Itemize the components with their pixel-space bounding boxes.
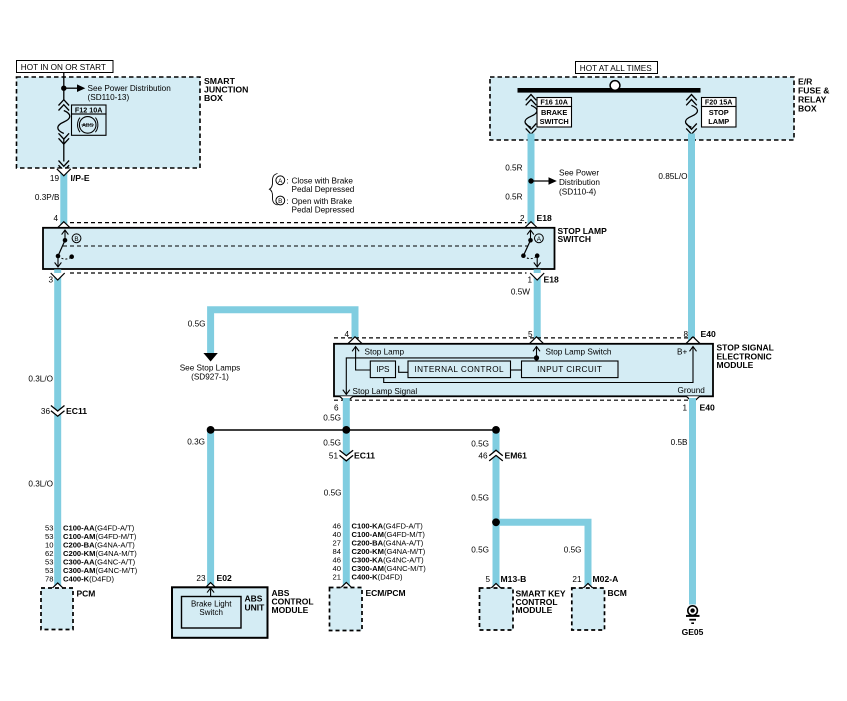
node junction branch to BCM: [492, 518, 500, 526]
svg-text:MODULE: MODULE: [272, 605, 309, 615]
svg-text:0.5G: 0.5G: [188, 320, 206, 329]
svg-text:51: 51: [329, 452, 339, 461]
svg-text:0.5W: 0.5W: [511, 288, 530, 297]
svg-text:Ground: Ground: [678, 386, 706, 395]
svg-text:BOX: BOX: [798, 104, 817, 114]
connector chevron module pin 6: [340, 396, 353, 402]
svg-text:A: A: [278, 178, 283, 185]
connector chevron M02-A: [581, 583, 595, 590]
PCM box: [41, 588, 73, 630]
svg-text:4: 4: [344, 330, 349, 339]
fuse F20 label box: [702, 98, 737, 107]
node junction 0.3G: [207, 426, 215, 434]
svg-text:HOT IN ON OR START: HOT IN ON OR START: [21, 63, 106, 72]
node junction pin5 line: [534, 355, 539, 360]
svg-text:ECM/PCM: ECM/PCM: [366, 588, 406, 598]
svg-text:F20 15A: F20 15A: [705, 98, 733, 107]
svg-text:21: 21: [572, 575, 582, 584]
svg-text:C400-K(D4FD): C400-K(D4FD): [63, 575, 115, 584]
svg-text:E02: E02: [217, 573, 233, 583]
legend brace: [270, 174, 278, 206]
svg-text:(SD110-4): (SD110-4): [559, 187, 596, 196]
node circle A: [535, 234, 544, 243]
wire 0.5G from module pin 6 down to ECM/PCM: [343, 398, 350, 588]
pin 4 internal arrow to IPS: [356, 347, 371, 370]
svg-text:Stop Lamp Signal: Stop Lamp Signal: [353, 387, 418, 396]
connector chevron module pin 8: [686, 337, 700, 344]
INPUT CIRCUIT box: [522, 361, 619, 378]
svg-text:ABS: ABS: [82, 123, 93, 129]
svg-text:Distribution: Distribution: [559, 178, 600, 187]
svg-text:0.5R: 0.5R: [505, 164, 522, 173]
svg-text:E40: E40: [701, 329, 717, 339]
connector chevron module pin 5: [530, 337, 544, 344]
connector dashed line below switch: [70, 272, 527, 274]
connector dashed line below module: [334, 399, 698, 401]
legend circle A: [276, 176, 285, 185]
svg-text:Brake Light: Brake Light: [191, 599, 232, 608]
svg-text:EM61: EM61: [505, 451, 528, 461]
node power tap junction: [61, 86, 66, 91]
node junction 0.5G center: [342, 426, 350, 434]
svg-text:0.5R: 0.5R: [505, 193, 522, 202]
wire 0.3L/O from switch pin 3 to PCM: [54, 269, 61, 586]
svg-text::: :: [286, 176, 288, 185]
label BRAKE SWITCH box: [537, 107, 572, 128]
legend circle B: [276, 196, 285, 205]
node junction on 0.5R wire: [528, 178, 533, 183]
ground symbol GE05: [686, 606, 700, 623]
connector 46 EM61: [478, 450, 527, 461]
svg-text:I/P-E: I/P-E: [71, 173, 90, 183]
internal wire stop lamp signal: [346, 358, 536, 394]
switch pole B: [55, 230, 74, 267]
smart junction box outline U1: [17, 77, 201, 168]
arrow to stop lamps: [203, 353, 217, 362]
svg-text:2: 2: [520, 214, 525, 223]
connector chevron pin 3 E18: [51, 273, 65, 280]
svg-text:B: B: [278, 198, 282, 205]
connector chevron module pin 4: [348, 337, 362, 344]
B+ internal wire to IPS: [384, 347, 693, 383]
connector 51 EC11: [329, 450, 375, 461]
svg-text:MODULE: MODULE: [717, 360, 754, 370]
svg-text:M02-A: M02-A: [593, 574, 619, 584]
node circle B: [72, 234, 81, 243]
connector chevron PCM: [51, 583, 65, 590]
fuse F16 10A: [525, 95, 537, 135]
svg-text:8: 8: [683, 330, 688, 339]
svg-text:See Power: See Power: [559, 169, 599, 178]
svg-text:0.5G: 0.5G: [471, 546, 489, 555]
svg-text:E18: E18: [544, 274, 560, 284]
svg-text:Pedal Depressed: Pedal Depressed: [292, 206, 355, 215]
svg-text:0.5G: 0.5G: [323, 414, 341, 423]
svg-text:BCM: BCM: [608, 588, 627, 598]
svg-text:F12 10A: F12 10A: [75, 105, 103, 114]
svg-text:LAMP: LAMP: [708, 117, 729, 126]
svg-text:EC11: EC11: [66, 406, 87, 416]
svg-text:SWITCH: SWITCH: [540, 117, 569, 126]
svg-text:A: A: [537, 236, 542, 243]
svg-text:0.5G: 0.5G: [323, 439, 341, 448]
svg-text:0.3P/B: 0.3P/B: [35, 193, 60, 202]
wire 0.85L/O from F20 to module pin 8: [688, 134, 695, 344]
svg-text:5: 5: [528, 330, 533, 339]
svg-text:0.5G: 0.5G: [324, 489, 342, 498]
wire from HOT label down to junction: [63, 73, 65, 100]
svg-text:21: 21: [333, 573, 341, 582]
stop lamp switch box S1: [43, 228, 555, 269]
label HOT AT ALL TIMES: [576, 62, 658, 74]
svg-text:Stop Lamp: Stop Lamp: [365, 347, 405, 356]
svg-text:INTERNAL CONTROL: INTERNAL CONTROL: [414, 365, 504, 374]
svg-text:0.3G: 0.3G: [187, 438, 205, 447]
node bus supply terminal: [610, 81, 620, 91]
IPS box: [370, 361, 395, 378]
ABS unit box: [172, 587, 268, 638]
node junction EM61 top: [492, 426, 500, 434]
link internal control to input circuit: [511, 369, 522, 371]
svg-text:F16 10A: F16 10A: [540, 98, 568, 107]
svg-text:SWITCH: SWITCH: [558, 234, 592, 244]
connector chevron pin 2 E18: [524, 222, 538, 229]
svg-text:UNIT: UNIT: [245, 602, 266, 612]
svg-text:(SD110-13): (SD110-13): [88, 93, 130, 102]
svg-text:BOX: BOX: [204, 93, 223, 103]
wire 0.5B ground wire: [689, 398, 696, 605]
svg-text:46: 46: [478, 452, 488, 461]
svg-text:C400-K(D4FD): C400-K(D4FD): [352, 573, 404, 582]
svg-text:Stop Lamp Switch: Stop Lamp Switch: [546, 347, 612, 356]
connector dashed line above module: [334, 337, 698, 339]
connector I/P-E chevron: [57, 169, 71, 176]
pin 6 internal arrowhead: [343, 390, 350, 395]
fuse F12 ABS icon box: [72, 114, 107, 135]
svg-text:(SD927-1): (SD927-1): [191, 373, 229, 382]
svg-text:BRAKE: BRAKE: [541, 108, 567, 117]
svg-text:19: 19: [50, 174, 60, 183]
svg-text:E18: E18: [537, 213, 553, 223]
wire 0.5G to stop lamps: [211, 310, 355, 354]
wire 0.5W from switch pin 1 to module pin 5: [534, 269, 541, 343]
E/R fuse and relay box outline: [490, 77, 794, 140]
fuse F20 15A: [686, 95, 698, 135]
stop signal electronic module box U2: [334, 344, 713, 397]
svg-text:1: 1: [682, 404, 687, 413]
svg-text:M13-B: M13-B: [501, 574, 527, 584]
svg-text:Close with Brake: Close with Brake: [292, 176, 354, 185]
svg-text:IPS: IPS: [376, 365, 390, 374]
fuse F12 10A: [58, 100, 70, 171]
svg-text:MODULE: MODULE: [516, 605, 553, 615]
fuse F16 label box: [537, 98, 572, 107]
label HOT IN ON OR START: [17, 61, 114, 73]
svg-text:See Power Distribution: See Power Distribution: [88, 84, 172, 93]
svg-text:See Stop Lamps: See Stop Lamps: [180, 363, 241, 372]
svg-text:0.5B: 0.5B: [671, 438, 688, 447]
svg-text:4: 4: [53, 214, 58, 223]
wire 0.5G down to smart key module: [493, 430, 500, 588]
brake light switch box: [182, 597, 242, 629]
switch pole A: [521, 230, 540, 267]
wire I/P-E 0.3P/B from SJB to switch pin 4: [60, 170, 67, 228]
svg-text:36: 36: [41, 407, 51, 416]
connector dashed line above switch: [70, 222, 527, 224]
connector chevron pin 4 E18: [57, 222, 71, 229]
svg-text:78: 78: [45, 575, 53, 584]
label STOP LAMP box: [702, 107, 737, 128]
svg-text::: :: [286, 197, 288, 206]
wire arrow See Power Distribution (SD110-13): [64, 84, 171, 102]
svg-text:EC11: EC11: [354, 451, 375, 461]
mechanical link dashed line: [63, 245, 528, 247]
svg-text:PCM: PCM: [77, 589, 96, 599]
ECM/PCM box: [330, 588, 363, 631]
svg-text:B+: B+: [677, 347, 687, 356]
wire 0.3G down to ABS: [207, 430, 214, 587]
svg-text:Open with Brake: Open with Brake: [292, 197, 353, 206]
bus bar: [518, 88, 701, 93]
svg-text:Pedal Depressed: Pedal Depressed: [292, 185, 355, 194]
svg-text:0.5G: 0.5G: [471, 494, 489, 503]
BCM box: [572, 588, 605, 630]
connector chevron ECM/PCM: [339, 582, 353, 589]
connector chevron module pin 1: [686, 396, 699, 402]
connector chevron pin 1 E18: [530, 273, 544, 280]
svg-text:HOT AT ALL TIMES: HOT AT ALL TIMES: [580, 64, 652, 73]
connector 36 EC11: [41, 406, 87, 417]
smart key control module box: [480, 588, 514, 630]
svg-text:E40: E40: [700, 403, 716, 413]
svg-text:0.5G: 0.5G: [471, 439, 489, 448]
svg-text:0.3L/O: 0.3L/O: [28, 375, 53, 384]
fuse F12 label box: [72, 105, 107, 114]
wire 0.5G branch to BCM: [496, 522, 588, 588]
svg-text:GE05: GE05: [682, 627, 704, 637]
wire arrow See Power Distribution (SD110-4): [531, 169, 600, 197]
svg-text:B: B: [74, 236, 78, 243]
link IPS to internal control: [399, 366, 408, 373]
wire tie line across: [211, 429, 496, 431]
svg-text:6: 6: [334, 404, 339, 413]
connector chevron E02: [204, 583, 218, 590]
svg-text:3: 3: [48, 275, 53, 284]
svg-text:0.5G: 0.5G: [564, 546, 582, 555]
svg-text:1: 1: [527, 275, 532, 284]
connector chevron M13-B: [489, 583, 503, 590]
svg-text:0.3L/O: 0.3L/O: [28, 479, 53, 488]
wire 0.5R from F16 to switch pin 2: [528, 134, 535, 228]
svg-text:Switch: Switch: [199, 608, 223, 617]
svg-text:0.85L/O: 0.85L/O: [658, 172, 687, 181]
INTERNAL CONTROL box: [408, 361, 511, 378]
svg-text:STOP: STOP: [709, 108, 729, 117]
svg-text:5: 5: [485, 575, 490, 584]
pin 5 internal arrow: [536, 347, 538, 361]
entry arrow into brake light switch: [210, 589, 212, 597]
svg-text:23: 23: [196, 574, 206, 583]
svg-text:INPUT CIRCUIT: INPUT CIRCUIT: [537, 365, 602, 374]
